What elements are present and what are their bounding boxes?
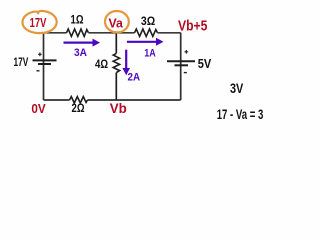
svg-text:Va: Va [109,16,124,31]
svg-text:17 - Va = 3: 17 - Va = 3 [217,107,264,122]
resistor R2 3-ohm zigzag [135,29,158,36]
wire middle branch lower [115,73,117,100]
wire top middle segment [89,32,135,34]
svg-text:3A: 3A [74,47,87,59]
wire middle branch upper [115,33,117,54]
current arrow 2A [125,50,127,70]
battery V2 plus sign [185,50,189,54]
svg-text:5V: 5V [198,57,212,71]
wire bottom-left segment [44,99,70,101]
svg-text:3V: 3V [230,81,243,96]
resistor R4 2-ohm zigzag [70,97,88,103]
svg-text:2Ω: 2Ω [72,103,85,115]
svg-text:17V: 17V [14,55,29,69]
resistor R1 1-ohm zigzag [67,29,89,36]
svg-text:3Ω: 3Ω [141,14,156,28]
svg-text:Vb: Vb [110,100,127,116]
resistor R3 4-ohm vertical zigzag [113,53,119,72]
svg-text:1Ω: 1Ω [71,15,84,27]
battery V1 minus sign [37,70,40,72]
highlight ellipse around Va [104,10,129,33]
wire left branch [43,33,45,100]
svg-text:17V: 17V [30,15,47,30]
wire bottom-right segment [88,99,181,101]
highlight ellipse around 17V [22,11,56,33]
svg-text:Vb+5: Vb+5 [178,18,207,34]
wire top-right segment [158,32,181,34]
current arrow 3A [64,41,95,43]
battery V2 5V plates [167,60,195,62]
wire right branch [180,33,182,100]
wire top-left segment [44,32,67,34]
battery V1 plus sign [38,53,42,57]
battery V2 minus sign [184,72,187,74]
battery V1 17V plates [33,59,57,61]
svg-text:0V: 0V [31,102,46,116]
svg-text:2A: 2A [128,72,141,84]
svg-text:4Ω: 4Ω [95,57,108,71]
current arrow 1A [127,41,158,43]
svg-text:1A: 1A [144,47,156,59]
